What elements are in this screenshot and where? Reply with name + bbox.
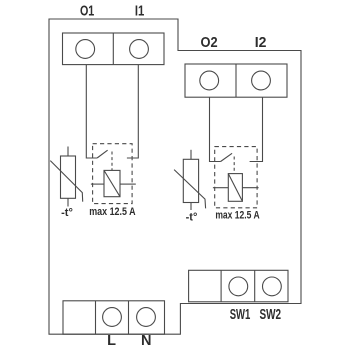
wire I1 to switch 1 — [127, 65, 138, 158]
svg-text:I1: I1 — [135, 4, 144, 20]
wire I2 to switch 2 — [250, 97, 263, 161]
relay K1 coil — [104, 170, 120, 196]
svg-text:SW1: SW1 — [230, 307, 251, 323]
switch blade 1 — [97, 150, 108, 158]
terminal O2 — [200, 71, 219, 90]
relay K2 coil leads — [213, 187, 259, 189]
svg-text:O1: O1 — [80, 4, 94, 20]
terminal O1 — [76, 40, 95, 59]
terminal N — [137, 308, 156, 327]
svg-text:max 12.5 A: max 12.5 A — [89, 206, 135, 218]
wire O2 to switch 2 — [210, 97, 221, 161]
relay K1 coil leads — [91, 183, 136, 185]
svg-text:L: L — [107, 333, 116, 349]
relay K2 coil — [228, 174, 242, 202]
svg-text:O2: O2 — [201, 35, 218, 51]
svg-text:SW2: SW2 — [260, 307, 282, 323]
svg-text:max 12.5 A: max 12.5 A — [215, 210, 259, 222]
terminal block O2/I2 — [185, 64, 287, 97]
terminal I2 — [252, 71, 271, 90]
thermistor RT1 — [50, 147, 82, 207]
relay K1 linkage — [111, 152, 113, 171]
terminal I1 — [130, 40, 149, 59]
relay K2 enclosure — [215, 147, 257, 208]
terminal SW1 — [229, 277, 248, 296]
switch blade 2 — [221, 153, 233, 161]
terminal SW2 — [263, 277, 282, 296]
relay K2 linkage — [233, 157, 235, 174]
svg-text:I2: I2 — [255, 35, 267, 51]
terminal block L/N — [63, 301, 165, 334]
terminal L — [103, 308, 122, 327]
svg-text:-t°: -t° — [61, 207, 73, 219]
terminal block O1/I1 — [63, 33, 165, 65]
svg-text:N: N — [141, 333, 151, 349]
relay K1 enclosure — [93, 144, 133, 204]
device outline — [49, 19, 301, 334]
terminal block SW1/SW2 — [189, 270, 288, 302]
thermistor RT2 — [174, 150, 206, 210]
svg-text:-t°: -t° — [186, 211, 198, 223]
wire O1 to switch 1 — [86, 65, 97, 158]
